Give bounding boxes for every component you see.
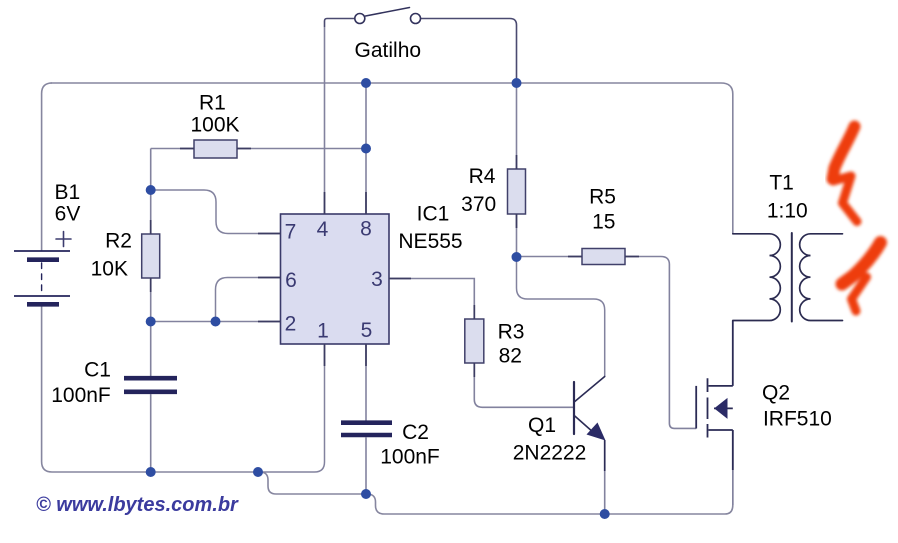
- svg-text:6: 6: [285, 269, 297, 292]
- MOSFET Q2 IRF510: [696, 321, 733, 471]
- svg-text:82: 82: [499, 345, 522, 368]
- wire node A to pin7 s-curve: [151, 190, 281, 234]
- svg-text:5: 5: [361, 319, 373, 342]
- source lead: [709, 430, 733, 470]
- svg-text:R3: R3: [498, 321, 525, 344]
- node dot Q1 emitter rail: [600, 509, 610, 519]
- Q1 emitter arrow: [587, 423, 606, 441]
- wire pin8 vertical to rail: [365, 83, 367, 214]
- channel segments: [707, 378, 709, 437]
- svg-text:Q2: Q2: [762, 382, 790, 405]
- gate bar: [695, 386, 697, 429]
- svg-text:R5: R5: [589, 186, 616, 209]
- resistor R5: [517, 249, 697, 429]
- node dot top rail / pin8: [361, 78, 371, 88]
- capacitor C1: [124, 322, 177, 473]
- svg-text:IC1: IC1: [417, 203, 450, 226]
- node dot pin6 branch: [211, 317, 221, 327]
- wire bottom rail left: [52, 430, 733, 514]
- svg-text:6V: 6V: [55, 203, 81, 226]
- svg-text:Gatilho: Gatilho: [355, 39, 422, 62]
- wire top rail V+: [51, 83, 733, 234]
- wire pin2 row: [151, 321, 281, 323]
- node dot pin1 rail: [253, 467, 263, 477]
- svg-text:B1: B1: [54, 181, 80, 204]
- body lead: [714, 407, 733, 409]
- svg-text:1:10: 1:10: [767, 199, 808, 222]
- svg-text:15: 15: [592, 211, 615, 234]
- switch Gatilho branch: [325, 8, 517, 84]
- svg-text:100nF: 100nF: [51, 384, 111, 407]
- node dot R2 bottom: [146, 317, 156, 327]
- resistor R1: [151, 140, 366, 158]
- node dot C1 bottom: [146, 467, 156, 477]
- svg-text:7: 7: [285, 221, 297, 244]
- svg-text:100K: 100K: [190, 113, 239, 136]
- core: [791, 233, 793, 322]
- resistor R2: [142, 234, 160, 322]
- svg-text:NE555: NE555: [398, 230, 462, 253]
- battery plus sign: [56, 232, 71, 247]
- svg-text:1: 1: [317, 320, 329, 343]
- wire node X to Q1 collector: [517, 257, 605, 377]
- transformer T1: [733, 233, 843, 322]
- capacitor C2: [341, 423, 392, 494]
- svg-text:3: 3: [371, 268, 383, 291]
- wire Q2 source to rail: [732, 470, 734, 505]
- svg-text:2N2222: 2N2222: [513, 442, 587, 465]
- svg-text:C1: C1: [84, 359, 111, 382]
- wire pin1 path: [258, 344, 325, 472]
- drain lead: [709, 321, 733, 386]
- wire Q1 emitter to rail: [604, 471, 606, 514]
- svg-text:R1: R1: [199, 92, 226, 115]
- battery B1: [14, 251, 70, 304]
- switch lever: [366, 8, 410, 17]
- svg-text:370: 370: [461, 193, 496, 216]
- node dot R4 bottom X: [512, 252, 522, 262]
- switch contact circle right: [411, 14, 421, 24]
- wire R1 left branch down: [150, 149, 152, 235]
- svg-text:R4: R4: [469, 165, 496, 188]
- svg-text:R2: R2: [105, 230, 132, 253]
- node dot R1/R2 junction: [146, 185, 156, 195]
- spark upper: [833, 127, 858, 222]
- wire pin4 vertical to switch: [324, 27, 326, 214]
- svg-text:8: 8: [360, 218, 372, 241]
- svg-text:4: 4: [317, 218, 329, 241]
- wire battery branch left: [42, 83, 52, 472]
- svg-text:10K: 10K: [91, 257, 128, 280]
- resistor R4: [508, 83, 526, 257]
- resistor R3: [465, 319, 574, 407]
- svg-text:IRF510: IRF510: [763, 408, 832, 431]
- node dot top rail / R4: [512, 78, 522, 88]
- wire pin5 to C2: [365, 344, 367, 421]
- svg-text:100nF: 100nF: [380, 446, 440, 469]
- svg-text:C2: C2: [402, 421, 429, 444]
- svg-text:2: 2: [285, 313, 297, 336]
- primary winding: [733, 234, 781, 321]
- dark pin stubs of IC1: [151, 149, 639, 378]
- node dot R1 right: [361, 144, 371, 154]
- transistor Q1 2N2222: [574, 377, 605, 472]
- Q2 body diode arrow: [714, 398, 727, 419]
- wire pin6 branch: [216, 278, 281, 322]
- node dot C2 bottom: [361, 489, 371, 499]
- svg-text:T1: T1: [769, 172, 794, 195]
- op-amp/timer IC U1 NE555 body: [281, 214, 390, 344]
- svg-text:Q1: Q1: [528, 414, 556, 437]
- spark lower: [842, 243, 881, 312]
- wire pin3 to R3: [389, 279, 474, 320]
- switch contact circle left: [355, 14, 365, 24]
- secondary winding: [800, 234, 843, 321]
- svg-text:© www.lbytes.com.br: © www.lbytes.com.br: [36, 494, 239, 516]
